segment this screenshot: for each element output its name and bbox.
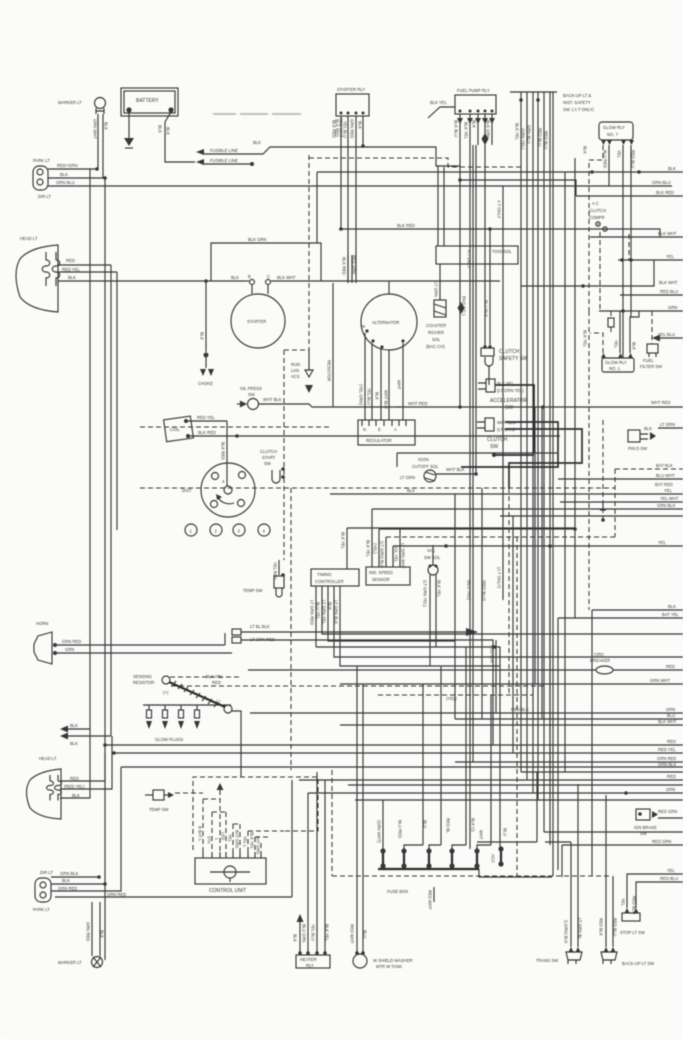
- wire x503 tick: [600, 502, 606, 510]
- wire starter rly pin1: [340, 116, 342, 229]
- wire alt B to regulator: [402, 343, 404, 420]
- svg-text:INST. SAFETY: INST. SAFETY: [563, 100, 591, 105]
- svg-text:RED WHT: RED WHT: [428, 890, 433, 910]
- svg-text:YEL RED: YEL RED: [273, 562, 278, 580]
- svg-text:RED BLU: RED BLU: [613, 918, 618, 936]
- fuse 1: [377, 800, 386, 869]
- wire vac top: [432, 545, 434, 565]
- wire x292 vertical: [291, 780, 293, 897]
- svg-text:BLK: BLK: [166, 127, 171, 135]
- svg-text:BLK WHT: BLK WHT: [658, 719, 677, 724]
- svg-text:(LGRN) BLK: (LGRN) BLK: [564, 920, 569, 944]
- wire starter C lead BLK WHT: [271, 280, 500, 282]
- svg-text:GRN WHT: GRN WHT: [93, 119, 98, 139]
- svg-text:YEL: YEL: [664, 488, 673, 493]
- wire coil top RED YEL: [188, 420, 227, 422]
- wire vertical to y753 line: [114, 752, 683, 754]
- choke: [198, 279, 214, 386]
- fuel pump relay: [455, 88, 496, 124]
- wire y528: [347, 527, 575, 529]
- svg-text:(YEL): (YEL): [446, 696, 457, 701]
- svg-text:PARK LT: PARK LT: [33, 158, 50, 163]
- wire sensor pin3: [385, 537, 387, 567]
- svg-text:WHT: WHT: [479, 830, 484, 840]
- svg-text:GRN BLK: GRN BLK: [657, 503, 676, 508]
- svg-text:BLK RED: BLK RED: [332, 120, 337, 138]
- wire coil to distributor: [226, 421, 228, 486]
- wire y762 GRN RED: [455, 761, 683, 763]
- svg-text:YEL: YEL: [617, 150, 622, 159]
- wire y832: [544, 831, 683, 833]
- svg-text:SENSOR: SENSOR: [372, 577, 390, 582]
- svg-text:E: E: [378, 427, 381, 432]
- svg-text:CONTROLLER: CONTROLLER: [315, 579, 344, 584]
- svg-text:BLU: BLU: [667, 713, 675, 718]
- wire y618 BAT YEL: [558, 617, 683, 619]
- svg-text:BLK: BLK: [231, 275, 239, 280]
- svg-text:WHT: WHT: [397, 380, 402, 390]
- svg-text:PARK LT: PARK LT: [33, 907, 50, 912]
- wire starter rly pin4: [362, 116, 364, 146]
- svg-text:BLU YEL: BLU YEL: [316, 602, 321, 620]
- svg-text:BLK: BLK: [253, 140, 261, 145]
- wire starter rly pin3: [355, 116, 357, 283]
- wire x476 vertical: [475, 145, 477, 474]
- svg-text:SOL YEL: SOL YEL: [394, 545, 399, 563]
- wire bundle vert 5: [543, 92, 545, 832]
- svg-text:BLK RED: BLK RED: [656, 190, 674, 195]
- svg-text:BLK YEL: BLK YEL: [250, 832, 255, 850]
- wire controller pin3: [328, 586, 455, 641]
- svg-text:YEL: YEL: [614, 340, 619, 349]
- wire glow rly7 pin4: [630, 145, 632, 317]
- wire x455 vertical: [454, 494, 456, 719]
- svg-text:RLY: RLY: [306, 963, 314, 968]
- svg-text:COIL: COIL: [170, 427, 180, 432]
- starter terminal stems: [252, 284, 268, 294]
- svg-text:RED WHT: RED WHT: [339, 118, 344, 138]
- svg-text:BLK: BLK: [60, 172, 68, 177]
- wire bundle vert 3: [532, 92, 534, 793]
- svg-text:WHT BLK: WHT BLK: [263, 397, 282, 402]
- wire dashed y876 fuse feed: [332, 875, 609, 877]
- svg-text:B BAT L: B BAT L: [198, 826, 203, 842]
- wire starter loop top BLK GRN: [211, 243, 321, 281]
- wire sensor pin4: [392, 546, 394, 567]
- marker light (front): [58, 98, 106, 115]
- svg-text:CUTOFF SOL: CUTOFF SOL: [412, 464, 439, 469]
- svg-text:YEL: YEL: [658, 540, 667, 545]
- wire stop sw lead1 y874: [627, 874, 683, 908]
- wire y785: [348, 784, 683, 786]
- fuse 5: [471, 695, 492, 869]
- svg-text:CHOKE: CHOKE: [198, 381, 213, 386]
- svg-text:(LT GRN YEL): (LT GRN YEL): [423, 580, 428, 607]
- wire marker rear GRN RED: [91, 902, 93, 956]
- svg-text:BAT YEL: BAT YEL: [662, 612, 679, 617]
- svg-text:RED: RED: [66, 258, 75, 263]
- svg-text:HORN: HORN: [36, 621, 48, 626]
- svg-text:BLK YEL: BLK YEL: [430, 100, 448, 105]
- svg-text:DIR LT: DIR LT: [40, 870, 53, 875]
- svg-text:HEATER: HEATER: [300, 957, 317, 962]
- wire backup lead1: [605, 795, 607, 947]
- wire y229 BLK RED long: [339, 229, 683, 237]
- timing controller: [311, 569, 359, 586]
- svg-text:BLK GRN: BLK GRN: [486, 120, 491, 138]
- svg-text:BLK: BLK: [293, 934, 298, 942]
- svg-text:SW: SW: [490, 444, 498, 450]
- svg-text:TEMP SW: TEMP SW: [243, 588, 263, 593]
- svg-text:(-): (-): [216, 699, 221, 704]
- svg-text:START: START: [262, 455, 276, 460]
- svg-text:BLK: BLK: [200, 332, 205, 340]
- svg-text:RED YEL: RED YEL: [62, 267, 81, 272]
- svg-text:SAFETY SW: SAFETY SW: [499, 356, 528, 362]
- wire ac compr dashed down: [599, 232, 601, 311]
- wire y509 GRN BLK long: [372, 508, 683, 510]
- svg-text:BAT BLK: BAT BLK: [656, 463, 673, 468]
- svg-text:LT GRN: LT GRN: [660, 422, 675, 427]
- svg-text:(BAC CH): (BAC CH): [426, 344, 445, 349]
- svg-text:YEL BLU: YEL BLU: [367, 388, 372, 405]
- svg-text:BLK: BLK: [632, 342, 637, 350]
- svg-text:BLK: BLK: [472, 120, 477, 128]
- svg-text:TRANS SW: TRANS SW: [536, 958, 558, 963]
- wire controller pin4: [334, 586, 683, 657]
- svg-text:BLU: BLU: [503, 828, 508, 836]
- svg-text:LT GRN BLK: LT GRN BLK: [334, 600, 339, 624]
- svg-text:GRN BLU: GRN BLU: [56, 180, 75, 185]
- wire x566 x578 top links: [545, 841, 571, 843]
- svg-text:LHS: LHS: [291, 368, 299, 373]
- svg-text:FUEL PUMP RLY: FUEL PUMP RLY: [457, 88, 490, 93]
- svg-text:ACC: ACC: [491, 854, 496, 863]
- wire sensor pin1: [371, 509, 373, 567]
- svg-text:GRN BLU: GRN BLU: [527, 125, 532, 144]
- wire y428: [658, 427, 683, 429]
- svg-text:GRN: GRN: [65, 647, 74, 652]
- svg-text:BLU WHT: BLU WHT: [656, 473, 675, 478]
- svg-text:RED GRN: RED GRN: [352, 255, 357, 274]
- accelerator switch: [478, 379, 527, 411]
- svg-text:WHT RED: WHT RED: [651, 400, 670, 405]
- head light (front): [16, 236, 60, 312]
- svg-text:BLU RED: BLU RED: [398, 820, 403, 838]
- pin D switch: [628, 422, 675, 451]
- svg-text:LT GRN YEL: LT GRN YEL: [322, 600, 327, 625]
- wire connector lower long: [241, 640, 493, 745]
- wire bundle vert 7: [552, 92, 554, 876]
- svg-text:BLK YEL: BLK YEL: [437, 580, 442, 598]
- svg-text:RED YEL: RED YEL: [658, 747, 677, 752]
- wire x503 vertical: [502, 186, 504, 600]
- wire marker lt GRN WHT: [97, 114, 99, 169]
- glow plug 1: [146, 705, 152, 729]
- svg-text:BLK YEL: BLK YEL: [366, 540, 371, 558]
- trans switch: [536, 947, 582, 964]
- wire clutch sw bold loop A: [461, 422, 558, 467]
- svg-text:BACK-UP LT SW: BACK-UP LT SW: [622, 961, 654, 966]
- svg-text:BLK: BLK: [68, 275, 76, 280]
- svg-text:VCS: VCS: [291, 374, 300, 379]
- wire y725 BLK WHT: [340, 724, 683, 726]
- wire bundle vert 4: [537, 92, 539, 800]
- svg-text:BLK YEL: BLK YEL: [515, 123, 520, 141]
- svg-text:BLK: BLK: [668, 604, 676, 609]
- wire glow rly7 pin1 dashed: [589, 145, 603, 311]
- svg-text:RED BLK: RED BLK: [511, 707, 529, 712]
- control unit pin labels: [198, 826, 261, 854]
- svg-text:(RED YEL): (RED YEL): [64, 784, 85, 789]
- glow relay no 7: [599, 122, 634, 145]
- svg-text:WHT RED: WHT RED: [408, 401, 427, 406]
- wire alt F to regulator: [380, 349, 382, 420]
- wire trans lead1: [570, 842, 572, 947]
- svg-text:SENSING: SENSING: [133, 674, 152, 679]
- svg-text:BLU BLK: BLU BLK: [484, 300, 489, 317]
- wire dashed x509: [508, 488, 510, 695]
- wire washer lead1: [356, 666, 358, 953]
- wire GRN RED long y897: [55, 896, 292, 898]
- wire alternator top: [388, 281, 390, 294]
- wire y338 YEL BLU arrow: [660, 337, 683, 339]
- svg-text:STA: STA: [207, 836, 212, 844]
- starter terminal C: [266, 280, 271, 285]
- svg-text:CLUTCH: CLUTCH: [499, 349, 520, 355]
- svg-text:BLK WHT: BLK WHT: [659, 280, 678, 285]
- svg-text:YEL: YEL: [666, 254, 675, 259]
- svg-text:GRN: GRN: [668, 305, 677, 310]
- svg-text:BLK: BLK: [358, 121, 363, 129]
- svg-text:ENG NO 1: ENG NO 1: [462, 296, 467, 317]
- wire heater pin3: [316, 772, 318, 953]
- svg-text:GRN: GRN: [666, 707, 675, 712]
- svg-text:BLK RED: BLK RED: [221, 442, 226, 460]
- svg-text:BLU: BLU: [363, 930, 368, 938]
- fuse on dashed: [610, 311, 612, 333]
- wire BLK arrow lower: [68, 735, 111, 737]
- svg-text:OIL PRESS: OIL PRESS: [240, 386, 262, 391]
- wire head lt rear RED: [60, 780, 105, 782]
- svg-text:TOOI SOL: TOOI SOL: [492, 249, 512, 254]
- marker light (rear): [58, 957, 103, 968]
- wire dashed vertical x309: [308, 155, 310, 350]
- wire y842: [477, 841, 537, 843]
- svg-text:RED BLK: RED BLK: [490, 645, 495, 663]
- svg-text:BLK YEL: BLK YEL: [464, 122, 469, 140]
- svg-text:BLK: BLK: [375, 392, 380, 400]
- wire BLK y494: [330, 493, 683, 495]
- svg-text:BLK: BLK: [644, 426, 652, 431]
- svg-text:BREAKER: BREAKER: [590, 658, 610, 663]
- svg-text:LT GRN: LT GRN: [400, 475, 415, 480]
- svg-text:GRN BLK: GRN BLK: [60, 871, 79, 876]
- wire x575 long: [574, 158, 576, 618]
- wire x473 vertical: [472, 145, 474, 762]
- starter terminal B: [250, 280, 255, 285]
- spark plug 4: [258, 524, 270, 536]
- wire y684 GRN WHT: [340, 683, 683, 685]
- wire y311 GRN: [599, 310, 683, 312]
- wire y772: [521, 771, 683, 773]
- svg-text:CONTROL UNIT: CONTROL UNIT: [209, 888, 246, 894]
- wire stubs above starter: [348, 255, 352, 283]
- ground control unit: [210, 866, 250, 882]
- control unit dashed tree: [203, 783, 284, 852]
- svg-text:BLK: BLK: [100, 930, 105, 938]
- regulator: [358, 420, 415, 445]
- wire head lt rear RED YEL: [60, 736, 112, 789]
- wire y800: [355, 799, 683, 801]
- svg-text:RED: RED: [666, 664, 675, 669]
- svg-text:RED BL: RED BL: [446, 818, 451, 834]
- wire fuel pump pin2 long: [469, 114, 471, 849]
- svg-text:STOP LT SW: STOP LT SW: [620, 930, 645, 935]
- wire x592 down: [591, 610, 593, 876]
- svg-text:(+): (+): [163, 690, 169, 695]
- svg-text:BLK: BLK: [407, 488, 415, 493]
- svg-text:BLK: BLK: [70, 741, 78, 746]
- distributor: [182, 463, 255, 517]
- wire starter rly pin2: [347, 116, 349, 283]
- wire horn GRN: [57, 652, 232, 654]
- fuel filter switch: [640, 311, 662, 369]
- wire fuel pump pin5: [491, 114, 493, 145]
- wire x496 vertical: [495, 640, 497, 713]
- wire head lt RED: [58, 264, 111, 266]
- wire y180 from pin1: [460, 180, 576, 196]
- wire y845 RED GRN: [562, 844, 683, 846]
- wire heater pin2: [307, 793, 309, 953]
- head light (rear): [27, 756, 62, 819]
- wire fuel pump rly BLK YEL lead: [428, 107, 455, 118]
- svg-text:RED BLU: RED BLU: [538, 128, 543, 146]
- wire head lt rear BLK: [60, 729, 90, 798]
- svg-text:ALTERNATOR: ALTERNATOR: [372, 320, 399, 325]
- svg-text:RED GRN: RED GRN: [658, 809, 677, 814]
- wire dashed vertical x291: [290, 488, 292, 770]
- glow relay lower: [601, 353, 634, 372]
- svg-text:BLK: BLK: [158, 125, 163, 133]
- backup light switch: [601, 947, 654, 966]
- svg-text:FUSIBLE LINE: FUSIBLE LINE: [210, 148, 238, 153]
- svg-text:A T ONLY: A T ONLY: [497, 200, 502, 219]
- wire starter B lead: [244, 280, 249, 282]
- svg-text:RICHER: RICHER: [428, 330, 444, 335]
- svg-text:COASTER: COASTER: [426, 323, 446, 328]
- wire y695 dashed: [378, 694, 533, 696]
- svg-text:A: A: [394, 427, 397, 432]
- svg-text:BLK: BLK: [62, 878, 70, 883]
- svg-text:NO. 1: NO. 1: [609, 366, 621, 371]
- wire marker rear BLK: [99, 902, 101, 956]
- spark plug 2: [210, 524, 222, 536]
- ignition coil: [164, 416, 194, 442]
- wire head lt RED YEL: [58, 271, 117, 273]
- wire rect around sol: [397, 453, 557, 467]
- wire x558 down: [557, 618, 559, 870]
- svg-text:BLU: BLU: [423, 820, 428, 828]
- svg-text:RED BLU: RED BLU: [544, 131, 549, 149]
- svg-text:SOL: SOL: [432, 337, 441, 342]
- svg-text:BLK GRN: BLK GRN: [248, 237, 266, 242]
- clutch switch: [477, 418, 516, 450]
- svg-text:BLK WHT: BLK WHT: [658, 231, 677, 236]
- wire battery positive BLK: [165, 112, 195, 162]
- svg-text:(GRN WHT): (GRN WHT): [377, 820, 382, 843]
- wire y502 YEL WHT: [560, 501, 683, 503]
- svg-text:(GRN YEL): (GRN YEL): [521, 128, 526, 150]
- washer motor: [353, 951, 413, 969]
- wire vac sol leads: [429, 575, 431, 666]
- svg-text:SW: SW: [248, 392, 255, 397]
- svg-text:GRN RED: GRN RED: [350, 119, 355, 138]
- svg-text:LED: LED: [221, 832, 226, 840]
- svg-text:RED: RED: [70, 776, 79, 781]
- wire controller top: [346, 528, 348, 569]
- svg-text:RESISTOR: RESISTOR: [133, 680, 154, 685]
- vac sw solenoid: [424, 548, 441, 575]
- wire y780 RED: [299, 779, 683, 781]
- svg-text:GRN BLU: GRN BLU: [652, 180, 671, 185]
- wire x535 x542: [535, 407, 542, 719]
- wire y237 BLK WHT: [590, 236, 660, 238]
- svg-text:COMPR: COMPR: [589, 215, 605, 220]
- svg-text:GRN RED: GRN RED: [86, 922, 91, 941]
- ign cutoff solenoid: [400, 457, 478, 482]
- wire regulator WHT RED y407: [397, 406, 683, 408]
- dir/park light connector (rear): [33, 870, 53, 912]
- svg-text:GLOW PLUGS: GLOW PLUGS: [155, 737, 183, 742]
- svg-text:TEMP SW: TEMP SW: [149, 807, 169, 812]
- wire dashed y158: [309, 158, 521, 167]
- svg-text:(LT GRN): (LT GRN): [497, 427, 515, 432]
- wire bundle vert 6: [549, 92, 551, 845]
- svg-text:SW: SW: [264, 461, 271, 466]
- svg-text:BATTERY: BATTERY: [136, 98, 159, 104]
- wire fuel pump pin4 diamond: [484, 114, 486, 348]
- wire y295 RED BLU: [620, 294, 683, 296]
- wire dir lt BLK: [51, 883, 105, 885]
- svg-text:ACCELERATOR: ACCELERATOR: [490, 398, 527, 404]
- control unit: [195, 852, 266, 894]
- fusible link lower: [196, 158, 254, 166]
- wire bundle vert 2: [526, 92, 528, 780]
- svg-text:BACK-UP LT &: BACK-UP LT &: [563, 93, 591, 98]
- svg-text:RED: RED: [667, 739, 676, 744]
- svg-text:GLOW RLY: GLOW RLY: [605, 360, 627, 365]
- wire backup lead2: [612, 876, 614, 947]
- svg-text:(YEL): (YEL): [373, 543, 378, 554]
- wire resistor dashed right: [170, 676, 240, 678]
- svg-text:GRN: GRN: [666, 787, 675, 792]
- svg-text:DIR LT: DIR LT: [38, 194, 51, 199]
- wire alt N to regulator: [364, 333, 366, 420]
- clutch start switch: [260, 449, 285, 483]
- wire park lt BLK: [48, 177, 105, 179]
- svg-text:BLK: BLK: [668, 166, 676, 171]
- glow plugs bus: [143, 704, 231, 706]
- wire dashed x589 down: [588, 311, 590, 610]
- wire dashed x332: [331, 770, 333, 876]
- wire glow rly lower pins: [590, 333, 603, 353]
- fuse 2: [398, 684, 424, 869]
- faint note above fusible links: [213, 113, 301, 115]
- wire clutch safety feeds: [489, 229, 491, 345]
- wire sensor pin5: [399, 529, 401, 567]
- svg-text:(LT GRN) BLK: (LT GRN) BLK: [380, 541, 385, 568]
